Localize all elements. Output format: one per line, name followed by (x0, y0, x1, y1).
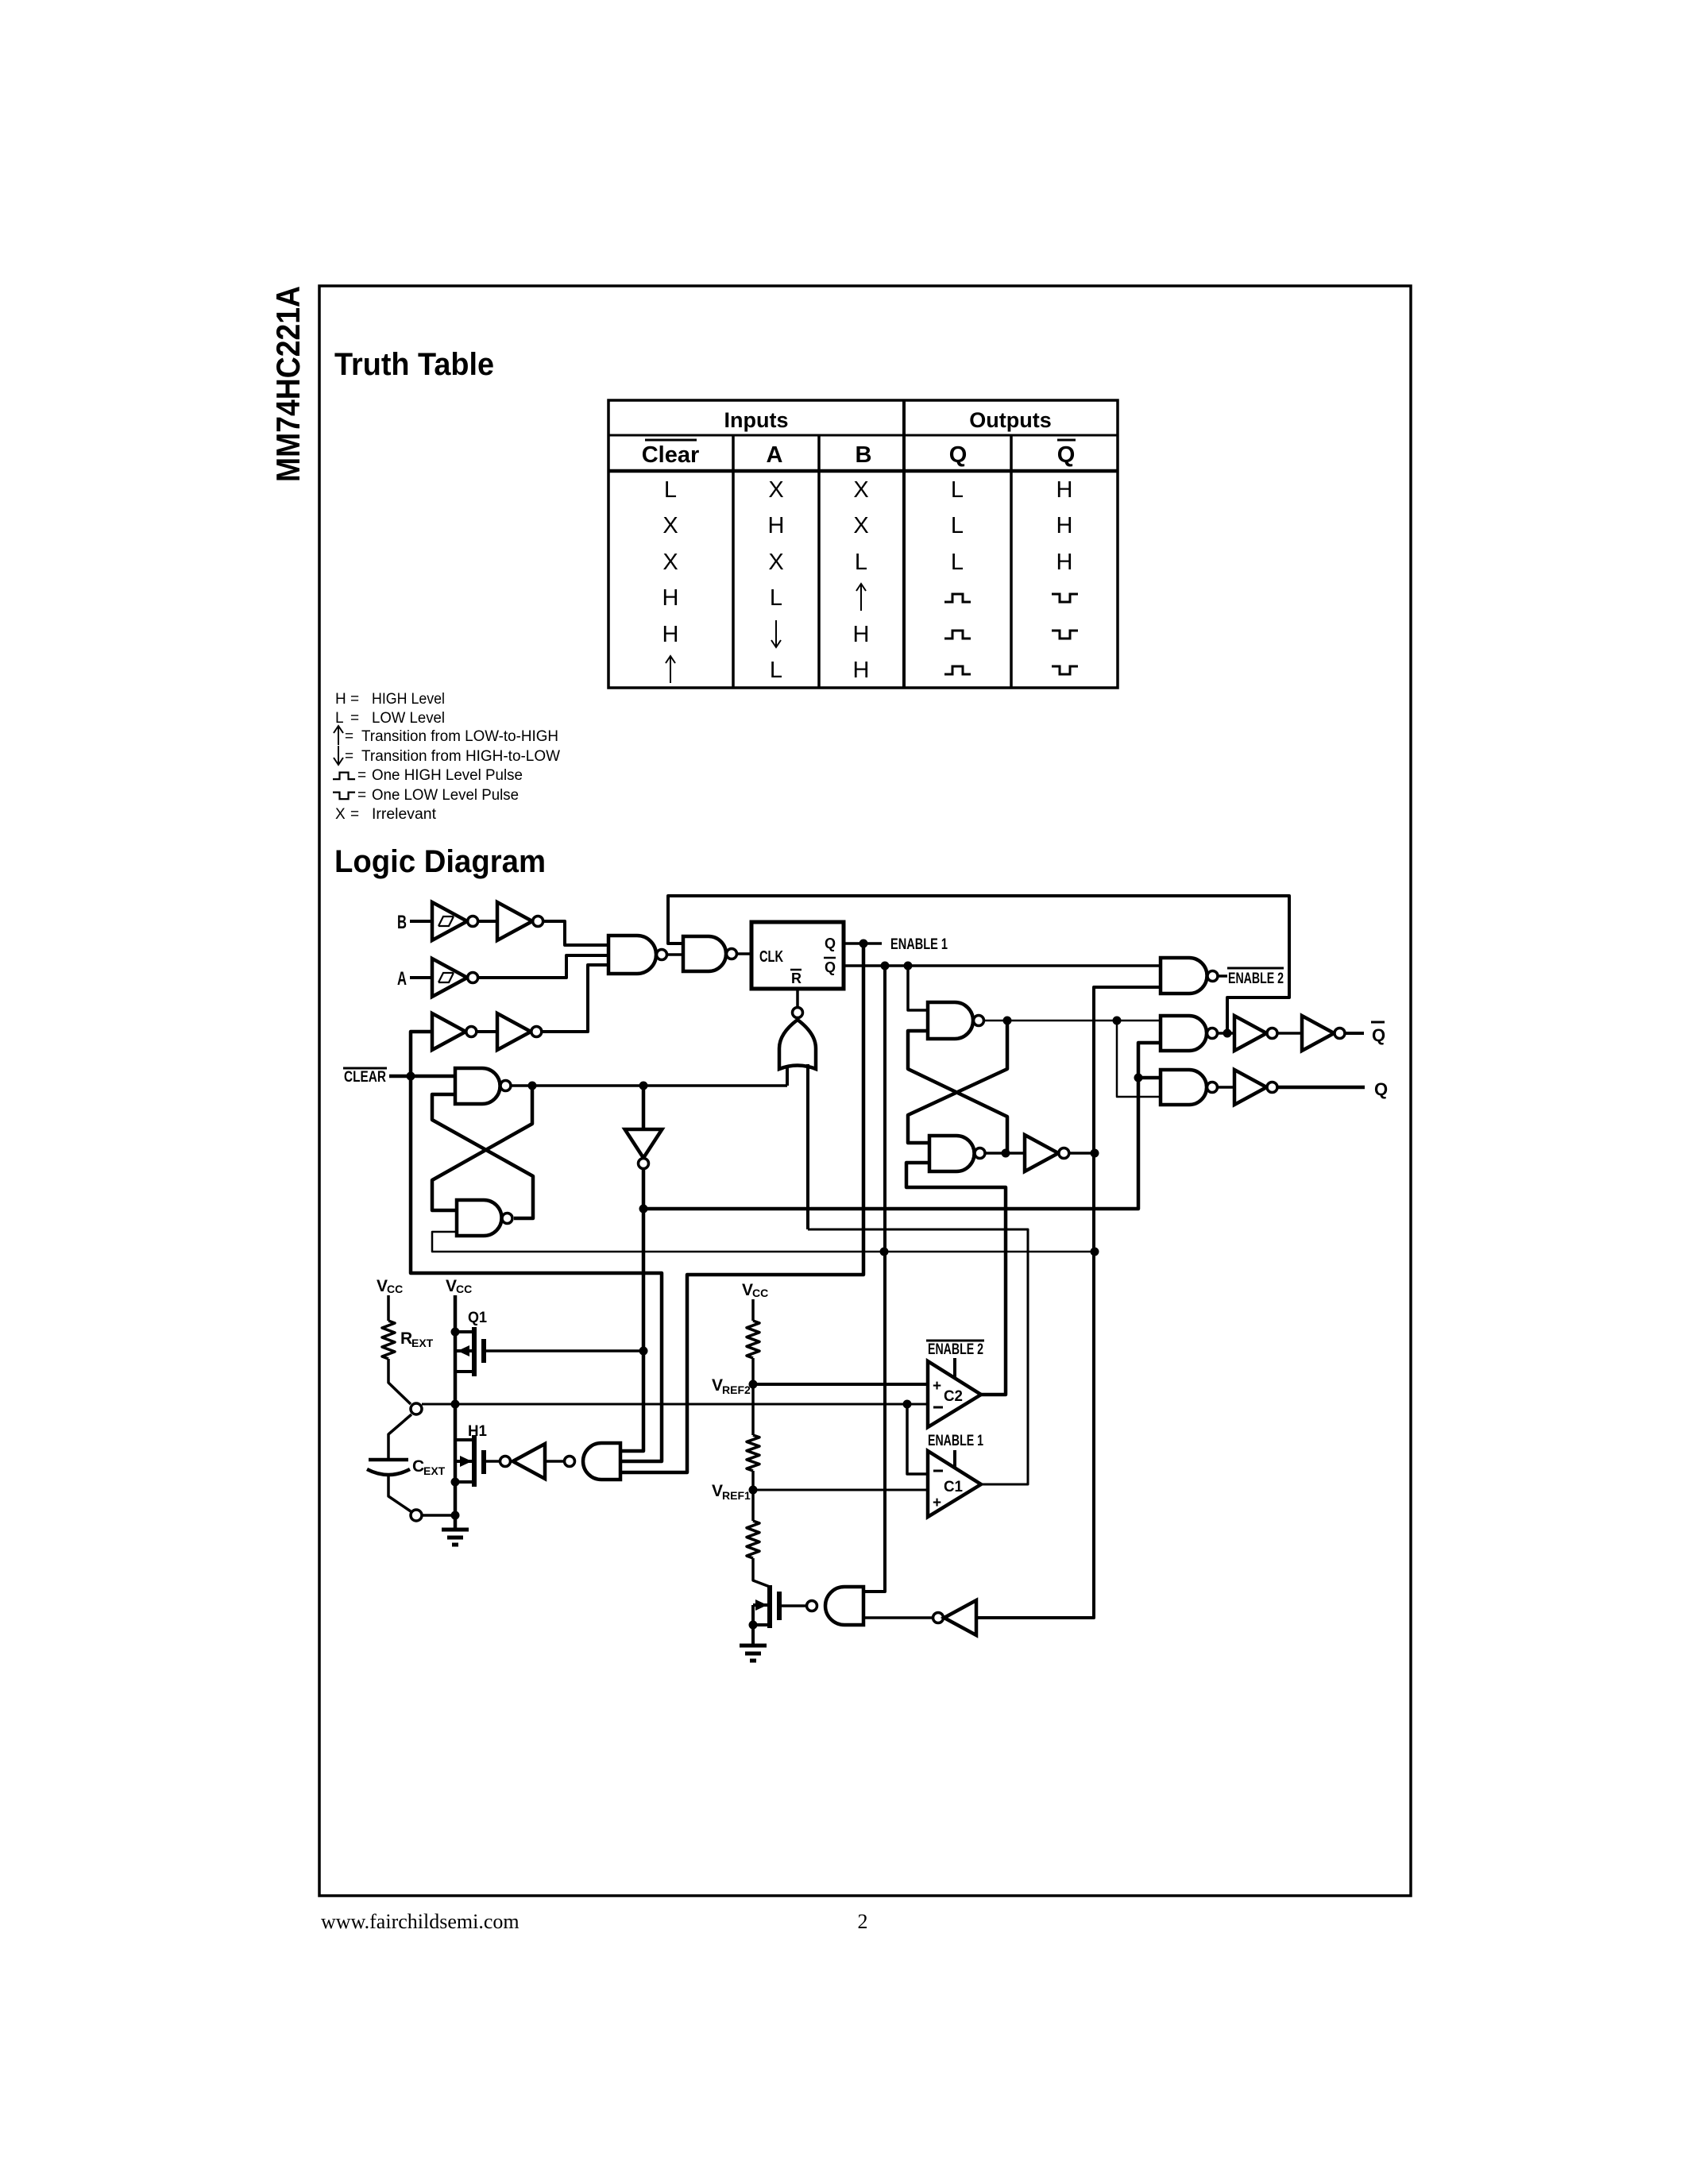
wire inverter G6 output down to NAND G8 top input (620, 1169, 643, 1451)
ground symbol under H1 (454, 1515, 458, 1530)
wire G4 output down to inverter G6 (642, 1086, 646, 1129)
node VREF2 (749, 1380, 758, 1389)
svg-text:HIGH Level: HIGH Level (372, 691, 445, 708)
truth table cell row5 col2 value DN (771, 620, 781, 647)
wire M3 gate to NAND G19 bubble (779, 1604, 807, 1607)
svg-text:CC: CC (387, 1283, 403, 1295)
svg-text:One HIGH Level Pulse: One HIGH Level Pulse (372, 767, 523, 784)
node G4 output junction B (639, 1082, 648, 1090)
svg-text:Q: Q (1374, 1079, 1388, 1099)
svg-text:www.fairchildsemi.com: www.fairchildsemi.com (321, 1910, 520, 1933)
svg-text:L: L (951, 550, 964, 575)
node long net junction at x1113 (880, 1248, 889, 1256)
bubble buffer G15 output (1335, 1028, 1345, 1039)
NAND G12 enable 2 (1161, 958, 1207, 994)
node G9 output junction (1002, 1149, 1010, 1158)
svg-text:L: L (664, 477, 677, 503)
wire VCC2 to Q1 (454, 1295, 458, 1404)
svg-text:L: L (951, 477, 964, 503)
svg-text:X: X (853, 477, 868, 503)
wire NAND G9 output to buffer G11 (986, 1152, 1026, 1155)
svg-text:ENABLE 1: ENABLE 1 (890, 936, 948, 953)
terminal pad CEXT ground pin (411, 1510, 422, 1521)
svg-text:CC: CC (752, 1287, 768, 1299)
wire VREF1 to comparator C1 plus input (753, 1489, 928, 1491)
wire REXT to terminal (388, 1359, 411, 1404)
ground symbol under M3 (740, 1644, 767, 1648)
NAND G19 mirrored (825, 1587, 863, 1625)
svg-text:V: V (742, 1281, 753, 1299)
long wire timing node to comparators (422, 1403, 927, 1406)
wire T2 to NAND G1 bottom input (542, 965, 608, 1032)
svg-text:H: H (768, 513, 785, 538)
truth table column line A/B (817, 435, 821, 688)
node Q output junction (859, 940, 868, 948)
svg-text:EXT: EXT (411, 1337, 434, 1349)
buffer G11 (1025, 1135, 1058, 1171)
wire flip-flop Rbar to OR gate bubble (796, 989, 799, 1007)
wire Qbar output of flip-flop to ENABLE2 NAND (844, 964, 1161, 967)
wire B input (410, 920, 432, 923)
bubble inverter G18 output (500, 1457, 511, 1467)
svg-text:Q: Q (1372, 1025, 1385, 1045)
svg-text:C1: C1 (944, 1479, 963, 1495)
wire NAND G13 to buffer G14 (1218, 1032, 1234, 1035)
wire latch cross-coupling G5 output to G4 input (432, 1094, 533, 1218)
inverter G18 pointing left (513, 1444, 545, 1479)
svg-text:H: H (662, 585, 679, 611)
legend line One LOW Level Pulse (333, 793, 355, 800)
wire buffer G11 output to vertical net (1069, 1152, 1094, 1155)
wire to VREF1 node (751, 1471, 755, 1490)
svg-text:Transition from LOW-to-HIGH: Transition from LOW-to-HIGH (361, 728, 558, 745)
legend line Transition from LOW-to-HIGH (334, 726, 343, 745)
wire NAND G7 output to NAND E top input (984, 1020, 1161, 1022)
comparator C2 (928, 1361, 981, 1427)
wire to VREF2 node (751, 1358, 755, 1384)
truth table outer border (608, 400, 1118, 688)
node enable net junction to G10 top input (1134, 1074, 1143, 1082)
wire VCC3 to divider (751, 1299, 755, 1321)
wire between B buffers (478, 920, 497, 923)
wire A to NAND G1 middle input (478, 955, 608, 978)
bubble buffer G14 output (1267, 1028, 1277, 1039)
svg-text:Irrelevant: Irrelevant (372, 806, 437, 823)
inverter G6 pointing down (625, 1129, 662, 1158)
wire terminal 2 to ground (422, 1514, 455, 1517)
wire OR gate right input from comparator C1 net (806, 1064, 809, 1229)
svg-text:X: X (335, 806, 346, 823)
svg-text:2: 2 (858, 1910, 868, 1933)
truth table cell row4 col3 value UP (856, 584, 866, 611)
bubble buffer T1 output (466, 1027, 477, 1037)
node G7 output junction B (1113, 1017, 1122, 1025)
wire NAND G12 output stub (1219, 974, 1228, 978)
inverter G20 pointing left (944, 1600, 976, 1635)
bubble buffer B2 output (533, 916, 543, 927)
wire top feedback loop (668, 896, 1289, 1033)
NAND G2 (683, 936, 726, 971)
wire vertical net ENABLE2-NAND input to bottom inverter (973, 987, 1161, 1618)
svg-text:+: + (933, 1495, 941, 1511)
wire VREF1 to bottom resistor (751, 1490, 755, 1521)
wire Q output (1277, 1086, 1365, 1090)
node ground junction (451, 1511, 460, 1520)
svg-text:V: V (712, 1482, 723, 1500)
truth table cell row4 col5 value PL (1052, 594, 1078, 602)
wire G16 bottom input from G7 net (1117, 1021, 1161, 1097)
svg-text:=: = (357, 767, 366, 784)
bubble buffer T2 output (531, 1027, 542, 1037)
node Qbar junction 2 (904, 962, 913, 970)
svg-text:L: L (770, 585, 782, 611)
svg-text:L: L (335, 710, 344, 727)
svg-text:A: A (397, 968, 407, 990)
node timing junction at comparator minus (903, 1400, 912, 1409)
bubble NAND G2 output (727, 949, 737, 959)
svg-text:V: V (712, 1376, 723, 1395)
wire VCC1 to resistor REXT (387, 1295, 390, 1321)
svg-text:CLK: CLK (759, 948, 783, 966)
bubble NAND G19 output (807, 1601, 817, 1611)
wire H1 gate to inverter bubble (484, 1460, 500, 1463)
wire VREF2 to comparator C2 plus input (753, 1383, 928, 1386)
truth table column header separator line (608, 469, 1118, 473)
truth table cell row6 col4 value PH (944, 666, 971, 674)
wire CLEAR down and across to NAND G8 middle input (411, 1076, 662, 1461)
node G4 output junction A (528, 1082, 537, 1090)
svg-text:R: R (791, 970, 802, 986)
NAND G16 Q output gate (1161, 1070, 1207, 1105)
truth table cell row5 col5 value PL (1052, 631, 1078, 639)
svg-text:L: L (855, 550, 867, 575)
node G7 output junction A (1003, 1017, 1012, 1025)
NAND G8 mirrored (583, 1443, 620, 1480)
wire CLEAR to buffer T1 (411, 1032, 432, 1076)
truth table cell row6 col1 value UP (666, 656, 675, 683)
svg-text:X: X (662, 550, 678, 575)
wire ENABLE2 to C2 (953, 1358, 956, 1379)
svg-text:H: H (335, 691, 346, 708)
svg-text:=: = (345, 748, 353, 765)
OR gate G3 pointing up (779, 1020, 816, 1069)
svg-text:Q1: Q1 (468, 1310, 487, 1326)
svg-text:H: H (853, 622, 870, 647)
svg-text:=: = (350, 710, 359, 727)
wire NAND G5 bottom input long net (432, 1232, 1095, 1252)
svg-text:ENABLE 2: ENABLE 2 (1228, 970, 1284, 987)
bubble NAND G12 output (1207, 971, 1218, 982)
resistor divider top (747, 1321, 759, 1358)
svg-text:L: L (951, 513, 964, 538)
bubble buffer G17 output (1267, 1082, 1277, 1093)
buffer G14 (1234, 1016, 1266, 1051)
wire A input (410, 976, 432, 979)
node Q1 source junction (451, 1328, 460, 1337)
wire divider to M3 drain (753, 1558, 770, 1587)
wire Q1 gate (484, 1349, 643, 1352)
resistor REXT (382, 1321, 395, 1359)
svg-text:=: = (350, 691, 359, 708)
Schmitt buffer B (432, 902, 467, 940)
NAND G7 right latch top (928, 1002, 973, 1039)
svg-text:Logic Diagram: Logic Diagram (334, 844, 546, 879)
svg-text:H: H (1056, 550, 1073, 575)
buffer T2 (497, 1013, 531, 1050)
wire Qbar net down to NAND G19 top input (863, 966, 885, 1592)
svg-text:Transition from HIGH-to-LOW: Transition from HIGH-to-LOW (361, 748, 560, 765)
flip-flop U1 box (751, 922, 844, 989)
svg-text:H: H (853, 658, 870, 683)
wire between T buffers (477, 1030, 497, 1033)
truth table column line Clear/A (732, 435, 735, 688)
wire terminal to capacitor CEXT (388, 1414, 411, 1460)
transistor M3 NMOS (753, 1603, 770, 1607)
bubble NAND G1 output (657, 950, 667, 960)
svg-text:REF1: REF1 (722, 1489, 751, 1502)
wire Q output of flip-flop (844, 942, 882, 945)
svg-text:REF2: REF2 (722, 1383, 751, 1396)
truth table header separator line (608, 434, 1118, 437)
bubble inverter G6 output (639, 1159, 649, 1169)
svg-text:X: X (662, 513, 678, 538)
wire CEXT to terminal 2 (388, 1476, 411, 1511)
wire comparator C1 output to OR gate right input (808, 1229, 1028, 1484)
wire CLEAR input (389, 1075, 455, 1078)
svg-text:X: X (768, 550, 783, 575)
truth table cell row4 col4 value PH (944, 594, 971, 602)
buffer T1 (432, 1013, 465, 1050)
node M3 source junction (749, 1621, 758, 1630)
svg-text:=: = (350, 806, 359, 823)
wire NAND G1 to NAND G2 (667, 953, 683, 956)
svg-text:H: H (662, 622, 679, 647)
wire OR gate left input from NAND G4 output net (786, 1065, 789, 1086)
svg-text:L: L (770, 658, 782, 683)
svg-text:Q: Q (825, 959, 836, 975)
buffer G15 (1302, 1016, 1334, 1051)
wire C2 minus to C1 minus (907, 1404, 928, 1474)
bubble inverter G20 output (933, 1613, 944, 1623)
svg-text:Inputs: Inputs (724, 408, 789, 432)
svg-text:H: H (1056, 477, 1073, 503)
svg-text:V: V (446, 1277, 457, 1295)
node junction G6 net and enable wire (639, 1205, 648, 1214)
wire NAND G9 bottom input to comparator C2 output (906, 1163, 1006, 1395)
terminal pad REXT/CEXT pin (411, 1403, 422, 1414)
node G11 output junction (1091, 1149, 1099, 1158)
bubble NAND G13 output (1207, 1028, 1218, 1039)
node long net junction at x1378 (1091, 1248, 1099, 1256)
svg-text:Outputs: Outputs (969, 408, 1051, 432)
node feedback junction after G13 (1223, 1029, 1232, 1038)
svg-text:+: + (933, 1378, 941, 1395)
svg-text:C2: C2 (944, 1388, 963, 1405)
bubble NAND G5 output (502, 1214, 512, 1224)
wire Qbar to NAND G7 top input (908, 966, 928, 1010)
svg-text:Clear: Clear (642, 442, 700, 468)
capacitor CEXT top plate (369, 1458, 408, 1462)
svg-text:B: B (397, 912, 407, 933)
wire NAND G16 to buffer G17 (1218, 1086, 1234, 1089)
resistor divider bottom (747, 1521, 759, 1558)
wire inverter G20 output to NAND G19 bottom input (863, 1616, 933, 1619)
legend line One HIGH Level Pulse (333, 773, 355, 780)
bubble Schmitt B output (468, 916, 478, 927)
wire flip-flop Q down left to NAND G8 bottom input (620, 943, 863, 1472)
NAND G4 left latch top (455, 1068, 500, 1104)
wire ENABLE1 to C1 (953, 1450, 956, 1469)
wire enable net to NAND G10 top input (1138, 1076, 1161, 1080)
truth table column line Inputs/Outputs (902, 400, 906, 688)
page frame border (319, 286, 1411, 1896)
wire buffer G14 to buffer G15 (1277, 1032, 1302, 1035)
svg-text:MM74HC221A: MM74HC221A (269, 286, 307, 482)
svg-text:=: = (357, 787, 366, 804)
node Qbar junction 1 (881, 962, 890, 970)
wire NAND G4 output to OR gate (512, 1084, 788, 1087)
svg-text:X: X (768, 477, 783, 503)
svg-text:ENABLE 1: ENABLE 1 (928, 1433, 983, 1449)
svg-text:B: B (856, 442, 872, 468)
svg-text:One LOW Level Pulse: One LOW Level Pulse (372, 787, 519, 804)
buffer G17 (1234, 1070, 1266, 1105)
svg-text:Q: Q (949, 442, 968, 468)
svg-text:X: X (853, 513, 868, 538)
bubble NAND G16 output (1207, 1082, 1218, 1093)
svg-text:CC: CC (456, 1283, 472, 1295)
svg-text:R: R (400, 1329, 412, 1348)
wire VREF2 to middle resistor (751, 1384, 755, 1435)
node VREF1 (749, 1486, 758, 1495)
svg-text:EXT: EXT (423, 1464, 446, 1477)
bubble NAND G8 output (565, 1457, 575, 1467)
node H1 source junction (451, 1478, 460, 1487)
svg-text:H1: H1 (468, 1423, 487, 1440)
svg-text:Truth Table: Truth Table (334, 347, 494, 382)
svg-text:CLEAR: CLEAR (344, 1069, 386, 1086)
svg-text:A: A (767, 442, 783, 468)
wire enable net from G6 to output NAND gates (643, 1043, 1161, 1209)
wire Qbar output (1345, 1032, 1364, 1035)
NAND G1 3-input (608, 936, 656, 974)
NAND G5 left latch bottom (457, 1200, 502, 1236)
svg-text:V: V (377, 1277, 388, 1295)
wire C2 minus input net (907, 1403, 928, 1406)
Schmitt buffer A (432, 959, 467, 997)
wire Q1 drain rail to H1 and ground (454, 1404, 458, 1515)
legend line Transition from HIGH-to-LOW (334, 746, 343, 765)
node CLEAR junction (407, 1072, 415, 1081)
truth table cell row5 col4 value PH (944, 631, 971, 639)
bubble NAND G4 output (500, 1081, 511, 1091)
bubble NAND G9 output (975, 1148, 985, 1159)
capacitor CEXT bottom plate (367, 1469, 410, 1475)
wire latch cross-coupling G9 output to G7 input (908, 1031, 1007, 1152)
bubble OR gate output (793, 1008, 803, 1018)
buffer B2 (497, 902, 532, 940)
comparator C1 (928, 1451, 981, 1517)
svg-text:ENABLE 2: ENABLE 2 (928, 1341, 983, 1358)
svg-text:=: = (345, 728, 353, 745)
resistor divider middle (747, 1435, 759, 1471)
wire B2 to NAND G1 top input (543, 921, 608, 945)
bubble buffer G11 output (1059, 1148, 1069, 1159)
wire inverter G18 input (545, 1460, 564, 1463)
svg-text:LOW Level: LOW Level (372, 710, 445, 727)
truth table column line Q/Qbar (1010, 435, 1013, 688)
svg-text:Q: Q (1057, 442, 1076, 468)
svg-text:C: C (412, 1457, 424, 1476)
wire NAND G2 to CLK (737, 952, 751, 955)
node timing junction at Q1 drain (451, 1400, 460, 1409)
NAND G9 right latch bottom (929, 1136, 975, 1171)
truth table cell row6 col5 value PL (1052, 666, 1078, 674)
node junction G6 net and Q1 gate (639, 1347, 648, 1356)
NAND G13 Qbar output gate (1161, 1016, 1207, 1051)
bubble Schmitt A output (468, 973, 478, 983)
wire latch cross-coupling G4 output to G5 input (432, 1086, 532, 1210)
svg-text:Q: Q (825, 936, 836, 951)
svg-text:H: H (1056, 513, 1073, 538)
bubble NAND G7 output (974, 1016, 984, 1026)
wire latch cross-coupling G7 output to G9 input (908, 1021, 1007, 1143)
